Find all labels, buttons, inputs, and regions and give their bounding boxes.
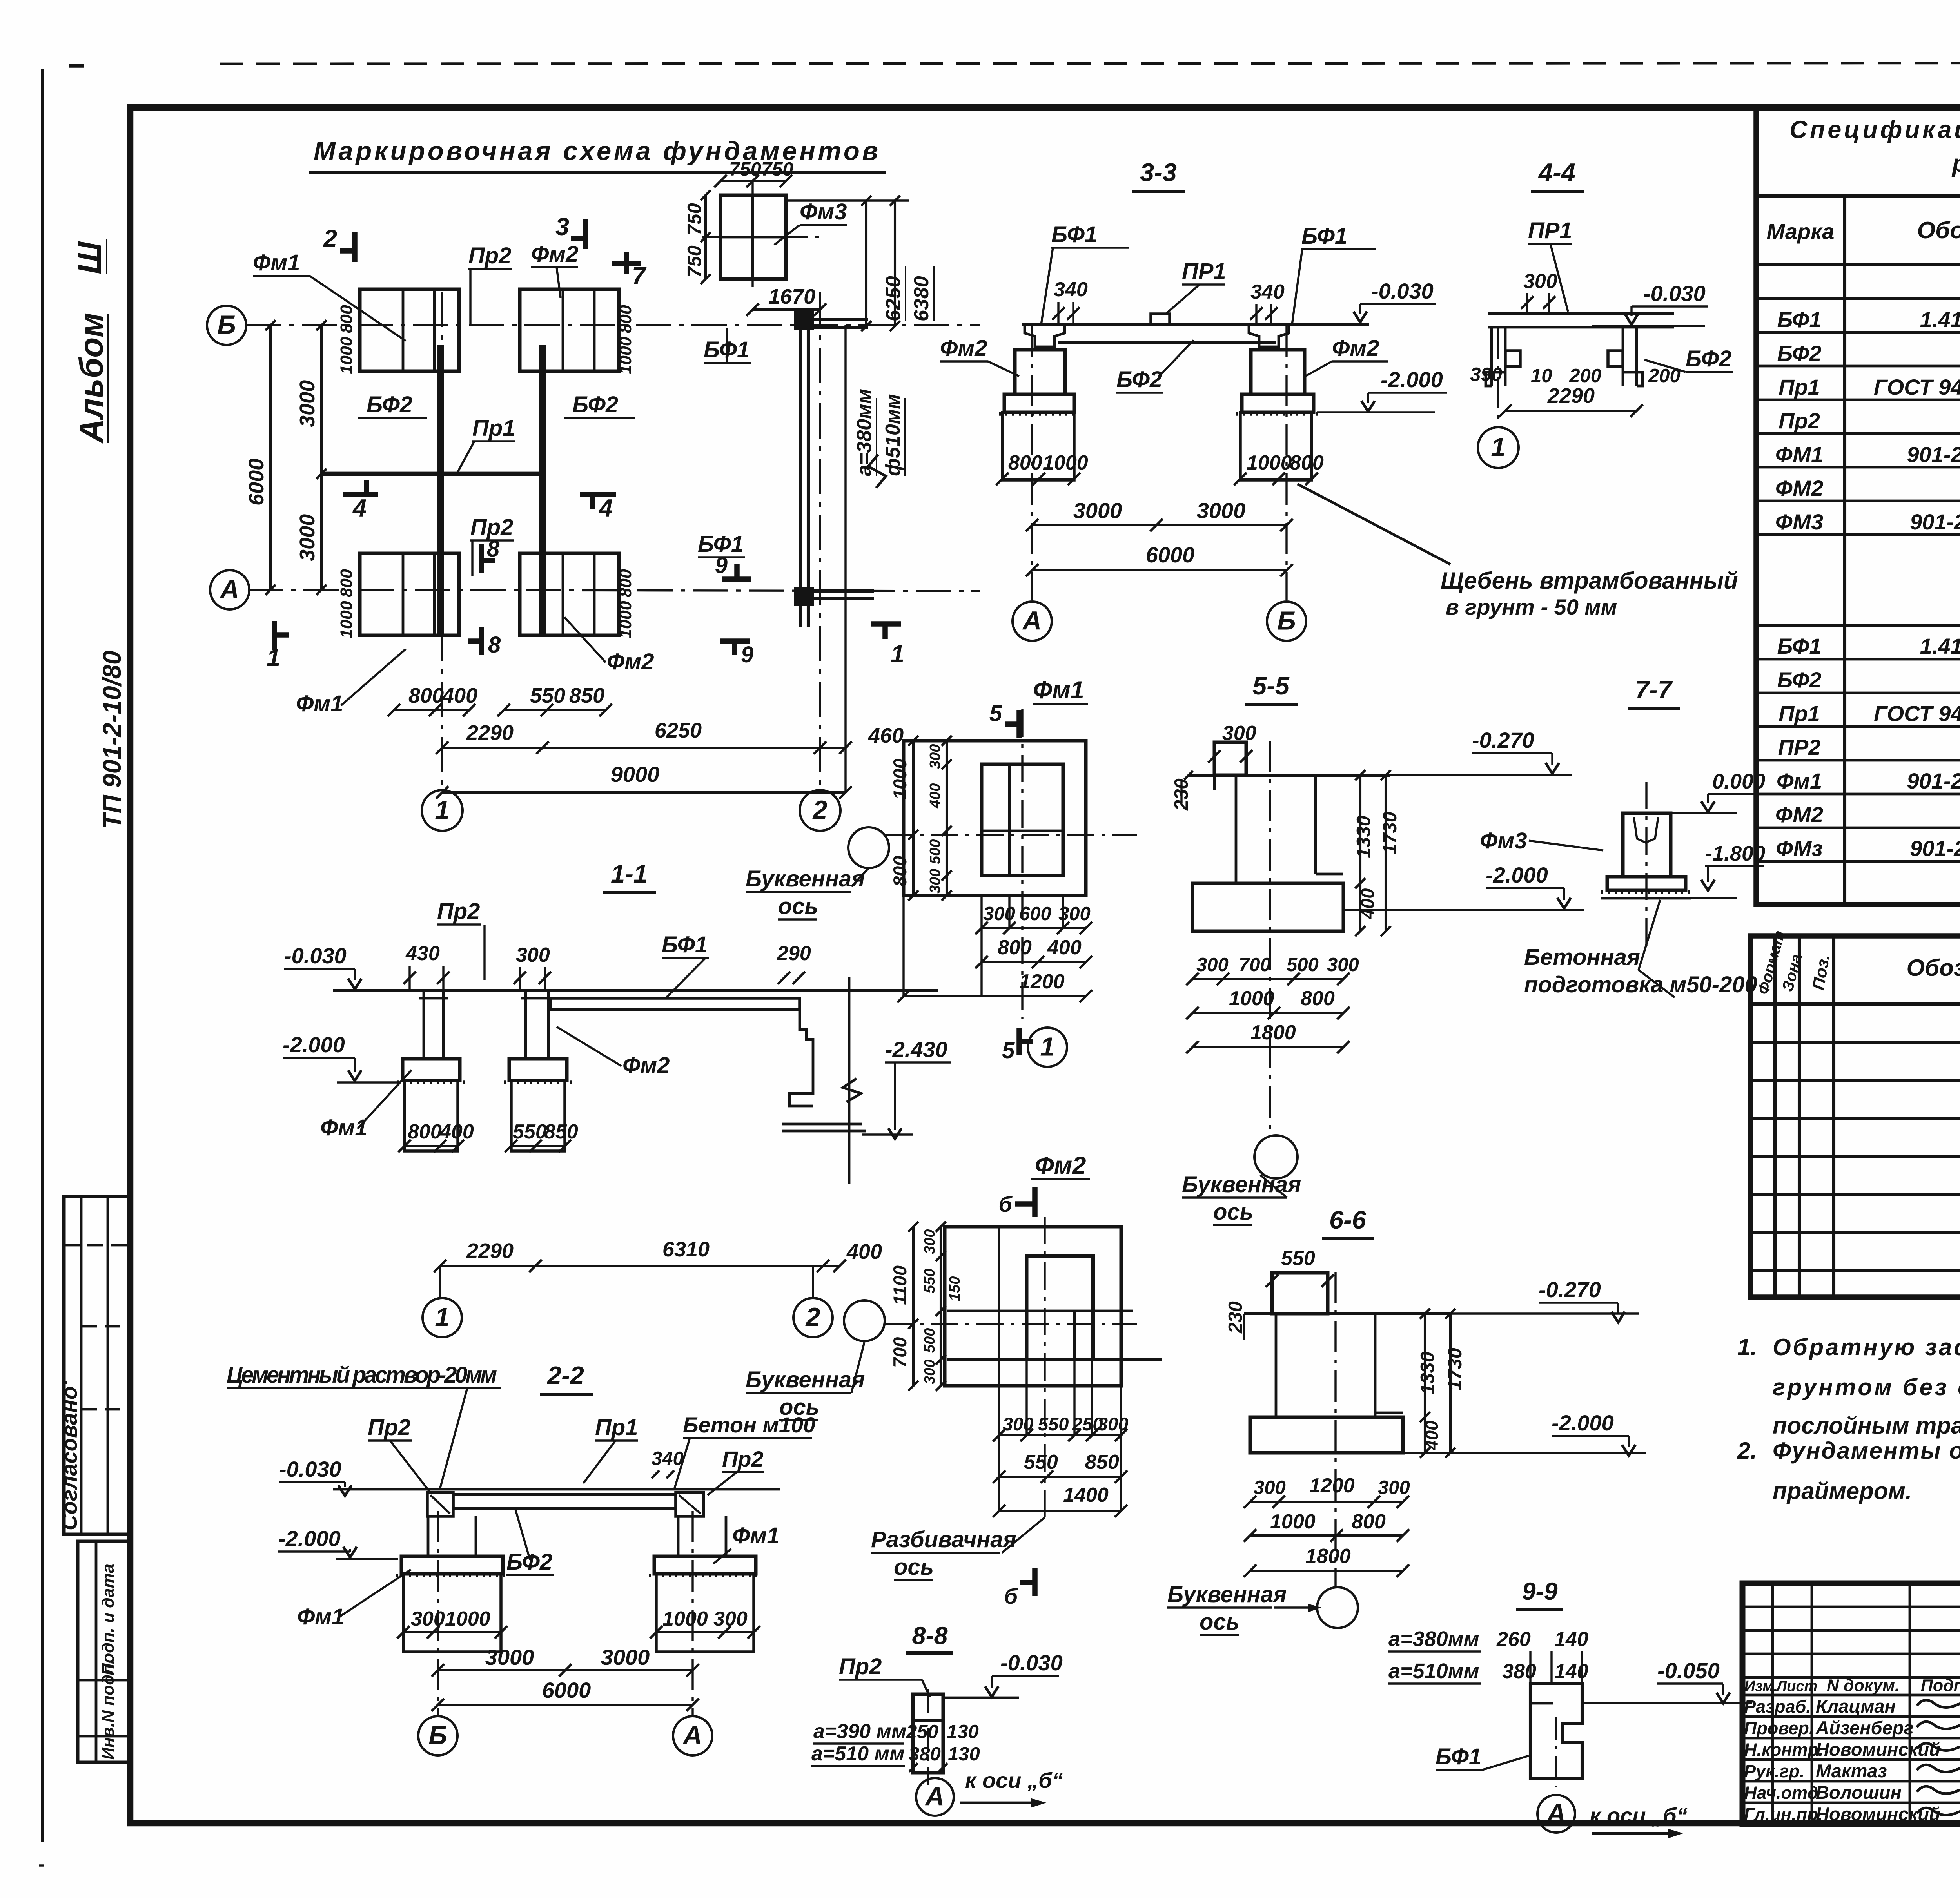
- svg-text:300: 300: [1327, 954, 1359, 975]
- svg-text:750: 750: [684, 245, 705, 277]
- svg-text:Гл.ин.пр.: Гл.ин.пр.: [1744, 1804, 1823, 1824]
- svg-text:Согласовано': Согласовано': [57, 1380, 82, 1530]
- svg-text:800: 800: [408, 684, 444, 707]
- svg-text:901-2- -КЖ-16: 901-2- -КЖ-16: [1907, 442, 1960, 467]
- svg-text:ФМ1: ФМ1: [1775, 442, 1823, 467]
- svg-text:-0.270: -0.270: [1472, 728, 1534, 752]
- svg-text:Фм2: Фм2: [1332, 335, 1379, 361]
- svg-text:а=390 мм: а=390 мм: [813, 1720, 906, 1743]
- svg-text:340: 340: [652, 1448, 684, 1469]
- svg-text:БФ1: БФ1: [1777, 307, 1821, 332]
- svg-text:1330: 1330: [1417, 1352, 1438, 1394]
- svg-text:Пр2: Пр2: [1779, 408, 1820, 433]
- svg-text:Пр1: Пр1: [1779, 375, 1820, 399]
- svg-text:7: 7: [632, 262, 647, 290]
- svg-text:9: 9: [741, 642, 753, 667]
- svg-text:Буквенная: Буквенная: [746, 866, 865, 892]
- svg-text:Обратную засыпку котлована: Обратную засыпку котлована выполнить мес…: [1773, 1334, 1960, 1360]
- svg-text:4: 4: [352, 495, 367, 522]
- svg-text:А: А: [1546, 1799, 1566, 1828]
- svg-text:3000: 3000: [296, 514, 319, 561]
- svg-text:Буквенная: Буквенная: [746, 1367, 865, 1392]
- svg-text:550: 550: [1038, 1414, 1069, 1434]
- svg-text:2: 2: [812, 796, 827, 825]
- svg-text:7-7: 7-7: [1635, 675, 1673, 704]
- svg-text:850: 850: [544, 1120, 578, 1143]
- svg-text:Подп.: Подп.: [1921, 1676, 1960, 1695]
- svg-text:а=380мм: а=380мм: [1388, 1627, 1479, 1651]
- svg-text:Пр2: Пр2: [722, 1447, 764, 1471]
- svg-text:праймером.: праймером.: [1773, 1478, 1912, 1504]
- svg-text:5: 5: [989, 701, 1002, 726]
- svg-text:Фм2: Фм2: [531, 241, 578, 267]
- svg-text:10: 10: [1531, 365, 1552, 386]
- svg-text:1000: 1000: [616, 337, 635, 374]
- svg-text:а=510мм: а=510мм: [1388, 1659, 1479, 1683]
- svg-text:6380: 6380: [910, 276, 933, 321]
- svg-text:300: 300: [1378, 1477, 1410, 1498]
- svg-text:БФ1: БФ1: [1777, 634, 1821, 658]
- svg-text:1.415-1 Вып.1: 1.415-1 Вып.1: [1920, 307, 1960, 332]
- svg-text:Спецификация элементов к ма: Спецификация элементов к маркировочной с…: [1789, 116, 1960, 143]
- svg-text:1730: 1730: [1445, 1348, 1466, 1390]
- svg-text:БФ2: БФ2: [1686, 346, 1731, 372]
- svg-text:400: 400: [1047, 936, 1082, 959]
- svg-text:340: 340: [1054, 278, 1088, 301]
- svg-text:850: 850: [1085, 1451, 1119, 1474]
- svg-text:ФМ2: ФМ2: [1775, 476, 1823, 500]
- svg-text:850: 850: [569, 684, 604, 707]
- svg-text:Б: Б: [428, 1721, 447, 1750]
- svg-text:Фм2: Фм2: [940, 335, 987, 361]
- svg-text:БФ2: БФ2: [1116, 367, 1162, 392]
- svg-text:500: 500: [922, 1328, 938, 1353]
- svg-text:901-2- -КЖ-27: 901-2- -КЖ-27: [1910, 836, 1960, 861]
- svg-text:3000: 3000: [1073, 498, 1122, 523]
- svg-text:300: 300: [516, 944, 550, 966]
- svg-text:Цементный раствор-20мм: Цементный раствор-20мм: [227, 1362, 497, 1388]
- svg-text:Фундаменты обмазать битумом за: Фундаменты обмазать битумом за 2 раза по…: [1773, 1438, 1960, 1464]
- svg-text:2.: 2.: [1737, 1438, 1757, 1464]
- svg-text:1000: 1000: [337, 337, 356, 374]
- svg-text:послойным трамбованием.: послойным трамбованием.: [1773, 1412, 1960, 1439]
- svg-text:Инв.N подл.: Инв.N подл.: [99, 1659, 118, 1760]
- svg-text:460: 460: [868, 724, 904, 747]
- svg-text:Пр1: Пр1: [595, 1415, 638, 1440]
- svg-text:6000: 6000: [542, 1678, 591, 1702]
- svg-text:ПР1: ПР1: [1528, 218, 1572, 243]
- svg-text:Бетонная: Бетонная: [1524, 944, 1640, 970]
- svg-text:5: 5: [1002, 1038, 1015, 1063]
- svg-text:2290: 2290: [466, 1239, 514, 1263]
- svg-text:Фм1: Фм1: [253, 250, 300, 276]
- svg-text:в грунт - 50 мм: в грунт - 50 мм: [1446, 595, 1617, 619]
- svg-text:1000: 1000: [889, 758, 910, 799]
- svg-text:Пр2: Пр2: [437, 899, 480, 924]
- svg-text:-0.030: -0.030: [279, 1457, 341, 1481]
- svg-text:БФ1: БФ1: [1301, 223, 1347, 249]
- svg-text:500: 500: [927, 839, 944, 864]
- svg-text:1400: 1400: [1063, 1484, 1109, 1506]
- svg-text:230: 230: [1225, 1301, 1246, 1334]
- svg-text:750: 750: [761, 159, 793, 180]
- svg-text:Фм1: Фм1: [296, 691, 343, 716]
- svg-text:800: 800: [1008, 451, 1042, 474]
- svg-text:1: 1: [435, 1303, 449, 1332]
- svg-text:901-2- -КЖ-16: 901-2- -КЖ-16: [1907, 769, 1960, 793]
- svg-text:Фм3: Фм3: [1480, 828, 1527, 854]
- svg-text:1: 1: [1040, 1032, 1054, 1062]
- svg-text:3-3: 3-3: [1140, 158, 1177, 187]
- svg-text:Б: Б: [1277, 606, 1296, 636]
- svg-text:1: 1: [267, 644, 280, 672]
- svg-text:8: 8: [488, 632, 501, 658]
- svg-text:200: 200: [1569, 365, 1601, 386]
- svg-text:300: 300: [922, 1229, 938, 1254]
- svg-text:1800: 1800: [1250, 1021, 1296, 1044]
- svg-text:800: 800: [1301, 987, 1335, 1010]
- svg-text:3000: 3000: [485, 1645, 534, 1670]
- svg-text:Пр1: Пр1: [472, 415, 515, 441]
- svg-text:400: 400: [846, 1240, 882, 1264]
- svg-text:Изм.: Изм.: [1744, 1678, 1778, 1695]
- svg-text:1730: 1730: [1379, 812, 1401, 854]
- svg-text:ГОСТ 948-76: ГОСТ 948-76: [1874, 701, 1960, 726]
- svg-text:6-6: 6-6: [1329, 1206, 1367, 1234]
- svg-text:А: А: [682, 1721, 702, 1750]
- svg-text:300: 300: [1254, 1477, 1286, 1498]
- svg-text:Разбивачная: Разбивачная: [871, 1527, 1016, 1552]
- svg-text:2290: 2290: [1547, 384, 1595, 408]
- svg-text:9000: 9000: [611, 762, 660, 787]
- svg-text:550: 550: [1281, 1247, 1315, 1270]
- svg-text:Новоминский: Новоминский: [1816, 1739, 1940, 1760]
- svg-text:6000: 6000: [1146, 542, 1195, 567]
- svg-text:БФ2: БФ2: [506, 1549, 552, 1575]
- svg-text:-2.000: -2.000: [1552, 1410, 1614, 1435]
- svg-text:-0.030: -0.030: [1000, 1650, 1063, 1675]
- svg-text:б: б: [1004, 1584, 1018, 1608]
- svg-text:а=510 мм: а=510 мм: [811, 1742, 904, 1765]
- svg-text:Н.контр.: Н.контр.: [1744, 1740, 1823, 1760]
- svg-text:ось: ось: [894, 1554, 934, 1580]
- svg-text:ФМз: ФМз: [1776, 836, 1823, 861]
- svg-text:Пр2: Пр2: [839, 1654, 882, 1679]
- svg-text:Альбом: Альбом: [73, 313, 110, 444]
- svg-text:550: 550: [922, 1269, 938, 1293]
- svg-text:550: 550: [530, 684, 565, 707]
- svg-text:1.: 1.: [1737, 1334, 1757, 1360]
- svg-text:800: 800: [998, 936, 1032, 959]
- svg-text:800: 800: [1290, 451, 1324, 474]
- svg-text:400: 400: [439, 1120, 474, 1143]
- svg-text:1-1: 1-1: [611, 859, 648, 888]
- svg-text:5-5: 5-5: [1252, 671, 1290, 700]
- svg-text:Подп. и дата: Подп. и дата: [99, 1564, 118, 1675]
- svg-text:700: 700: [1239, 954, 1271, 975]
- svg-text:Разраб.: Разраб.: [1744, 1697, 1811, 1717]
- svg-text:300: 300: [922, 1360, 938, 1384]
- svg-text:Айзенберг: Айзенберг: [1815, 1717, 1914, 1738]
- svg-text:1000: 1000: [1043, 451, 1088, 474]
- svg-text:Фм1: Фм1: [320, 1115, 367, 1140]
- svg-text:БФ2: БФ2: [1777, 667, 1821, 692]
- svg-text:расположенной на листе: расположенной на листе: [1951, 150, 1960, 177]
- svg-text:А: А: [220, 575, 239, 604]
- svg-text:4-4: 4-4: [1538, 158, 1575, 187]
- svg-text:1200: 1200: [1019, 970, 1065, 993]
- svg-text:к оси „б“: к оси „б“: [1590, 1803, 1688, 1828]
- svg-text:800: 800: [616, 569, 635, 597]
- svg-text:подготовка м50-200: подготовка м50-200: [1524, 972, 1757, 997]
- svg-text:3000: 3000: [296, 380, 319, 427]
- svg-text:8: 8: [487, 536, 500, 562]
- svg-text:340: 340: [1250, 281, 1285, 303]
- svg-text:6250: 6250: [655, 719, 702, 742]
- svg-text:150: 150: [947, 1276, 963, 1301]
- svg-text:2: 2: [323, 225, 337, 252]
- svg-text:800: 800: [1352, 1510, 1386, 1533]
- svg-text:Фм1: Фм1: [1033, 676, 1084, 704]
- svg-text:Ш: Ш: [71, 241, 109, 274]
- svg-text:БФ2: БФ2: [367, 392, 412, 417]
- svg-text:Фм3: Фм3: [800, 199, 847, 225]
- svg-text:3: 3: [555, 213, 569, 241]
- svg-text:430: 430: [405, 942, 440, 965]
- svg-text:Пр2: Пр2: [468, 243, 511, 268]
- svg-text:300: 300: [927, 869, 944, 894]
- svg-text:Фм2: Фм2: [607, 649, 654, 674]
- svg-text:ТП 901-2-10/80: ТП 901-2-10/80: [98, 651, 126, 829]
- svg-text:Марка: Марка: [1767, 219, 1835, 244]
- svg-text:Фм1: Фм1: [297, 1604, 344, 1630]
- svg-text:Лист: Лист: [1775, 1678, 1817, 1695]
- svg-text:Б: Б: [217, 310, 236, 340]
- svg-text:-2.000: -2.000: [1486, 863, 1548, 887]
- svg-text:3000: 3000: [1197, 498, 1246, 523]
- svg-text:300: 300: [927, 744, 944, 769]
- svg-text:130: 130: [947, 1721, 979, 1742]
- svg-text:1000: 1000: [616, 601, 635, 638]
- svg-text:б: б: [998, 1192, 1013, 1216]
- svg-text:9-9: 9-9: [1522, 1578, 1557, 1605]
- svg-text:N докум.: N докум.: [1827, 1676, 1900, 1695]
- svg-text:300: 300: [1196, 954, 1229, 975]
- svg-text:1000: 1000: [662, 1608, 708, 1630]
- svg-text:1: 1: [435, 796, 449, 825]
- svg-text:1: 1: [1491, 433, 1505, 462]
- svg-text:Обозначение: Обозначение: [1917, 217, 1960, 243]
- svg-text:Мактаз: Мактаз: [1816, 1760, 1887, 1781]
- svg-text:1000: 1000: [445, 1608, 490, 1630]
- svg-text:-0.030: -0.030: [284, 943, 347, 968]
- svg-text:БФ1: БФ1: [1051, 222, 1097, 247]
- svg-text:800: 800: [616, 305, 635, 333]
- svg-text:Фм2: Фм2: [1035, 1152, 1086, 1179]
- svg-text:Новоминский: Новоминский: [1816, 1804, 1940, 1824]
- svg-text:-2.430: -2.430: [885, 1037, 947, 1062]
- svg-text:Волошин: Волошин: [1816, 1782, 1902, 1803]
- svg-text:8-8: 8-8: [912, 1622, 947, 1650]
- svg-text:Пр2: Пр2: [368, 1415, 410, 1440]
- svg-text:А: А: [925, 1782, 944, 1811]
- svg-text:1000: 1000: [337, 601, 356, 638]
- svg-text:Щебень втрамбованный: Щебень втрамбованный: [1441, 567, 1738, 594]
- svg-text:ГОСТ 948-76: ГОСТ 948-76: [1874, 375, 1960, 399]
- svg-text:700: 700: [889, 1337, 910, 1368]
- svg-text:-0.270: -0.270: [1539, 1277, 1601, 1302]
- svg-text:380: 380: [909, 1744, 941, 1765]
- svg-text:6000: 6000: [245, 459, 268, 506]
- svg-text:400: 400: [927, 783, 944, 809]
- svg-text:Клацман: Клацман: [1816, 1696, 1896, 1717]
- svg-text:ФМ3: ФМ3: [1775, 509, 1823, 534]
- svg-text:1.415-1 Вып.1: 1.415-1 Вып.1: [1920, 634, 1960, 658]
- svg-text:ось: ось: [1213, 1199, 1253, 1225]
- svg-text:ПР1: ПР1: [1182, 259, 1226, 284]
- svg-text:750: 750: [684, 203, 705, 235]
- svg-text:140: 140: [1554, 1660, 1588, 1683]
- svg-text:Провер.: Провер.: [1744, 1718, 1814, 1738]
- svg-text:290: 290: [777, 942, 811, 965]
- svg-text:9: 9: [715, 553, 728, 578]
- svg-text:-0.030: -0.030: [1643, 281, 1706, 306]
- svg-text:Фм1: Фм1: [1777, 769, 1822, 793]
- svg-text:БФ1: БФ1: [662, 932, 708, 957]
- svg-text:2-2: 2-2: [546, 1361, 584, 1390]
- svg-text:250: 250: [906, 1721, 938, 1742]
- svg-text:Обозначение: Обозначение: [1906, 955, 1960, 981]
- svg-text:-0.030: -0.030: [1371, 279, 1434, 303]
- svg-text:2: 2: [805, 1303, 820, 1332]
- svg-text:Фм1: Фм1: [732, 1523, 779, 1548]
- svg-text:800: 800: [337, 305, 356, 333]
- svg-text:1000: 1000: [1270, 1510, 1316, 1533]
- svg-text:ПР2: ПР2: [1778, 735, 1821, 760]
- svg-text:1000: 1000: [1247, 451, 1292, 474]
- svg-text:грунтом без органических пр: грунтом без органических примесей с тщат…: [1773, 1374, 1960, 1400]
- svg-text:БФ1: БФ1: [1436, 1744, 1481, 1769]
- svg-text:А: А: [1022, 606, 1042, 636]
- svg-text:Фм2: Фм2: [622, 1053, 670, 1078]
- svg-text:400: 400: [442, 684, 477, 707]
- svg-text:ФМ2: ФМ2: [1775, 802, 1823, 827]
- svg-text:300: 300: [1523, 270, 1557, 293]
- svg-text:-2.000: -2.000: [283, 1032, 345, 1057]
- svg-text:4: 4: [598, 495, 613, 522]
- svg-text:800: 800: [889, 856, 910, 886]
- svg-text:1: 1: [891, 640, 904, 668]
- svg-text:500: 500: [1287, 954, 1319, 975]
- svg-text:260: 260: [1496, 1628, 1531, 1651]
- svg-text:1800: 1800: [1305, 1545, 1351, 1568]
- svg-text:2290: 2290: [466, 721, 514, 745]
- svg-text:-2.000: -2.000: [278, 1526, 341, 1551]
- svg-text:130: 130: [948, 1744, 980, 1765]
- svg-text:ось: ось: [778, 894, 818, 919]
- svg-text:750: 750: [729, 159, 761, 180]
- svg-text:Буквенная: Буквенная: [1167, 1582, 1287, 1607]
- svg-text:1100: 1100: [889, 1265, 910, 1305]
- svg-text:Рук.гр.: Рук.гр.: [1744, 1761, 1804, 1781]
- svg-text:6250: 6250: [882, 276, 905, 321]
- svg-text:ось: ось: [1200, 1609, 1240, 1635]
- svg-text:Бетон м100: Бетон м100: [683, 1412, 815, 1437]
- svg-text:БФ2: БФ2: [572, 392, 618, 417]
- svg-text:1670: 1670: [768, 285, 815, 308]
- svg-text:к оси „б“: к оси „б“: [965, 1768, 1063, 1793]
- svg-text:-0.050: -0.050: [1657, 1658, 1720, 1683]
- svg-text:Пр1: Пр1: [1779, 701, 1820, 726]
- svg-text:600: 600: [1019, 903, 1051, 925]
- svg-text:3000: 3000: [601, 1645, 650, 1670]
- svg-text:800: 800: [337, 569, 356, 597]
- svg-text:800: 800: [408, 1120, 442, 1143]
- svg-text:1330: 1330: [1353, 816, 1374, 858]
- svg-text:6310: 6310: [662, 1238, 710, 1261]
- svg-text:-2.000: -2.000: [1381, 367, 1443, 392]
- svg-text:Нач.отд: Нач.отд: [1744, 1783, 1818, 1803]
- svg-text:901-2- -КЖ-27: 901-2- -КЖ-27: [1910, 509, 1960, 534]
- svg-text:БФ2: БФ2: [1777, 341, 1821, 366]
- svg-text:1000: 1000: [1229, 987, 1274, 1010]
- svg-text:ф510мм: ф510мм: [882, 394, 904, 476]
- svg-text:1200: 1200: [1309, 1474, 1355, 1497]
- svg-text:140: 140: [1554, 1628, 1588, 1651]
